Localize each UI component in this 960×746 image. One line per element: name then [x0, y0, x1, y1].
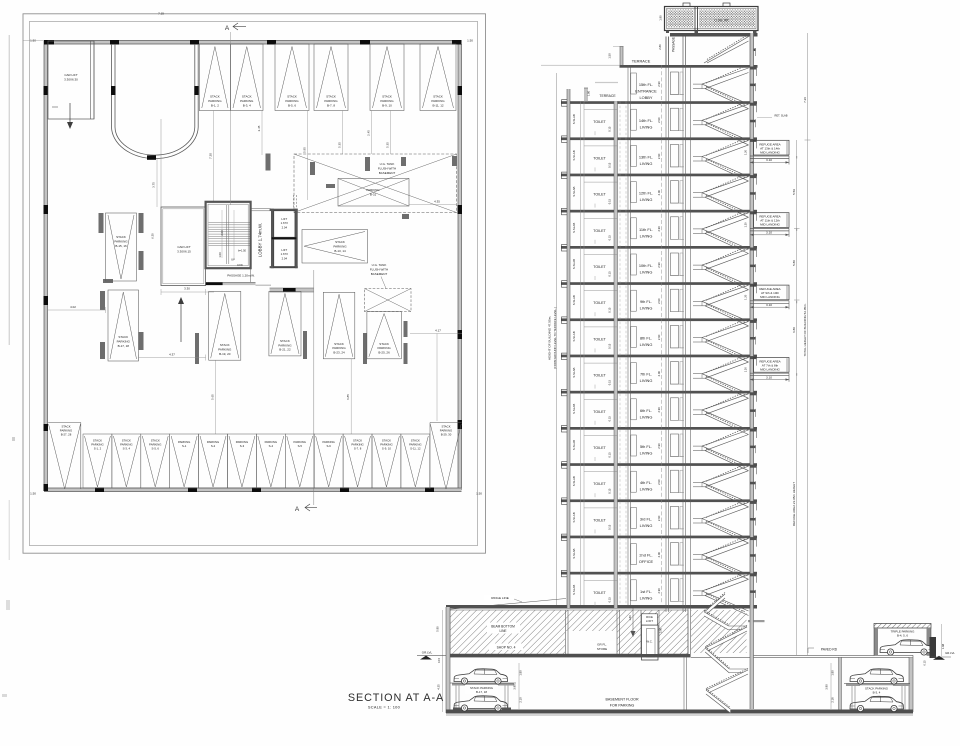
svg-text:10th FL.: 10th FL.	[639, 263, 653, 268]
svg-text:7.15: 7.15	[158, 12, 164, 16]
svg-text:1.20: 1.20	[743, 149, 747, 155]
refuge dim 3.10 2	[750, 156, 797, 164]
svg-text:2.90: 2.90	[657, 189, 661, 195]
svg-text:5.65: 5.65	[211, 394, 215, 400]
svg-text:STACK: STACK	[220, 343, 230, 347]
svg-text:1.20: 1.20	[743, 222, 747, 228]
refuge box 6	[754, 285, 790, 300]
svg-text:S.SLAB: S.SLAB	[572, 585, 576, 595]
svg-text:B-7, 8: B-7, 8	[327, 103, 335, 107]
svg-text:S-1, 2: S-1, 2	[94, 447, 102, 451]
label 14th FL.	[639, 118, 653, 130]
stair landing 10	[693, 446, 705, 451]
svg-text:S.SLAB: S.SLAB	[572, 440, 576, 450]
s.slab 11	[572, 476, 576, 486]
svg-text:6.80: 6.80	[792, 327, 796, 333]
lift walls	[270, 209, 298, 269]
svg-text:TERRACE: TERRACE	[632, 59, 651, 64]
passage walls top	[666, 37, 686, 66]
plan top wall	[44, 41, 462, 45]
stair flight up 6	[702, 284, 749, 306]
svg-text:2.04: 2.04	[282, 225, 288, 229]
lift shaft walls	[666, 37, 686, 613]
wall pier 17	[363, 333, 367, 364]
svg-text:REFUGE AREA 23.95m HEIGHT: REFUGE AREA 23.95m HEIGHT	[792, 482, 796, 526]
stall B-7, 8	[314, 44, 348, 111]
plan bottom wall	[44, 488, 462, 492]
lift door 4	[670, 217, 684, 240]
stair landing 8	[693, 374, 705, 379]
svg-text:PARKING: PARKING	[285, 99, 299, 103]
svg-text:A: A	[295, 506, 300, 513]
svg-text:B-17, 18: B-17, 18	[118, 344, 130, 348]
s.slab 13	[572, 548, 576, 558]
stair flight down 7	[702, 338, 749, 363]
dim 4.37	[139, 353, 206, 361]
svg-text:1.80: 1.80	[659, 15, 663, 21]
label 3rd FL.	[640, 516, 653, 528]
dim 1.80 parapet	[587, 90, 591, 96]
refuge ledge 2	[750, 156, 789, 165]
door living 1	[631, 109, 637, 130]
dim 3.30	[161, 287, 214, 296]
svg-text:STACK: STACK	[379, 342, 389, 346]
dim 4.17	[410, 329, 462, 422]
svg-text:2.90: 2.90	[657, 407, 661, 413]
svg-text:3.10: 3.10	[766, 375, 772, 379]
triple roof	[874, 624, 931, 629]
svg-text:SECTION AT A-A: SECTION AT A-A	[348, 692, 444, 704]
lift door 1	[670, 108, 684, 131]
lobby top wall	[251, 209, 271, 211]
stair landing 5	[693, 265, 705, 270]
s.slab 1	[572, 114, 576, 124]
basement flight d3	[705, 626, 747, 653]
lift door 7	[670, 325, 684, 348]
mid stub 5	[750, 264, 756, 272]
mid stub 14	[750, 590, 756, 598]
svg-text:LOBBY 1.74m.W.: LOBBY 1.74m.W.	[258, 223, 263, 257]
svg-text:LOFT: LOFT	[646, 619, 653, 623]
car lift room	[48, 41, 94, 119]
stair landing 13	[693, 555, 705, 560]
svg-text:STACK: STACK	[280, 339, 290, 343]
toilet 12	[584, 508, 618, 534]
lift 2	[274, 239, 295, 267]
refuge dim 3.10 6	[750, 301, 797, 309]
door living 8	[631, 363, 637, 384]
svg-text:FLUSH WITH: FLUSH WITH	[370, 268, 388, 272]
svg-text:S.SLAB: S.SLAB	[572, 186, 576, 196]
dim height 14	[657, 588, 661, 594]
svg-text:S-5, 6: S-5, 6	[152, 447, 160, 451]
svg-text:4.37: 4.37	[169, 353, 175, 357]
road end post	[930, 637, 937, 658]
svg-text:3.10: 3.10	[766, 303, 772, 307]
basement flight d5	[706, 669, 748, 695]
label 9th FL.	[640, 299, 653, 311]
stair flight up 14	[702, 574, 749, 596]
svg-text:B-23, 24: B-23, 24	[333, 351, 345, 355]
lift door 13	[670, 543, 684, 566]
dim 1.80 tank	[659, 15, 663, 21]
left wing parapet	[584, 88, 588, 101]
label 2nd FL.	[639, 553, 654, 565]
wall pier 11	[139, 251, 144, 270]
wall pier 14	[100, 342, 105, 359]
wall pier 16	[303, 331, 307, 359]
dim 2.45 a	[257, 111, 262, 156]
top flight	[704, 36, 749, 63]
svg-text:1.80: 1.80	[519, 670, 523, 676]
svg-text:2.45: 2.45	[257, 125, 261, 131]
svg-text:LIVING: LIVING	[640, 270, 653, 275]
svg-text:5.35: 5.35	[338, 142, 342, 148]
svg-text:LIVING: LIVING	[640, 451, 653, 456]
stair flight up 9	[702, 393, 749, 415]
svg-text:S.SLAB: S.SLAB	[572, 223, 576, 233]
stall S-1	[170, 434, 199, 488]
wall pier 10	[103, 279, 113, 283]
lift door 8	[670, 362, 684, 385]
ramp ticks	[111, 86, 199, 160]
wall pier 7	[452, 156, 457, 166]
stall B-11, 12	[420, 44, 456, 111]
svg-text:LINE: LINE	[499, 629, 506, 633]
svg-text:LIVING: LIVING	[640, 197, 653, 202]
stair box	[206, 202, 251, 268]
left wall	[567, 89, 570, 608]
s.slab 14	[572, 585, 576, 595]
dim 2.45 b	[367, 111, 372, 155]
refuge height line	[792, 140, 800, 655]
svg-text:BEAM BOTTOM: BEAM BOTTOM	[491, 625, 515, 629]
stair flight down 8	[702, 374, 749, 399]
svg-text:FLUSH WITH: FLUSH WITH	[378, 167, 396, 171]
svg-text:2nd FL.: 2nd FL.	[639, 553, 652, 558]
svg-text:2.90: 2.90	[657, 479, 661, 485]
ramp width dim	[152, 159, 158, 207]
slab stub 4	[750, 211, 757, 221]
toilet 9	[584, 399, 618, 425]
svg-text:ENTRANCE: ENTRANCE	[635, 89, 657, 94]
wall column ticks right	[458, 86, 463, 429]
svg-text:TOILET: TOILET	[593, 156, 606, 160]
svg-text:PARKING: PARKING	[366, 188, 380, 192]
svg-text:BASEMENT: BASEMENT	[371, 272, 388, 276]
s.slab 2	[572, 150, 576, 160]
svg-text:3.90: 3.90	[825, 684, 829, 690]
door living 11	[631, 471, 637, 492]
stair flight up 1	[702, 103, 749, 125]
ground slab	[446, 605, 757, 609]
lift door 10	[670, 434, 684, 457]
stall S-9, 10	[372, 434, 401, 488]
stair landing 12	[693, 519, 705, 524]
svg-text:PARKING: PARKING	[208, 99, 222, 103]
refuge dim 1.20 2	[743, 149, 747, 155]
svg-text:STACK: STACK	[433, 95, 443, 99]
toilet right wall	[614, 101, 618, 608]
toilet 6	[584, 291, 618, 317]
svg-text:2.90: 2.90	[657, 153, 661, 159]
stall B-23, 24	[323, 292, 355, 359]
svg-text:PARKING: PARKING	[278, 343, 292, 347]
svg-text:MID LANDING: MID LANDING	[760, 368, 780, 372]
triple columns	[874, 628, 931, 656]
door living 10	[631, 435, 637, 456]
stair left wall	[690, 65, 692, 608]
ret slab note	[757, 114, 788, 118]
s.slab 6	[572, 295, 576, 305]
stair texts	[218, 230, 247, 267]
mid stub 10	[750, 445, 756, 453]
svg-text:S-3, 4: S-3, 4	[123, 447, 131, 451]
total height dim	[803, 33, 811, 655]
wall pier 12	[100, 291, 105, 310]
dim 1.50 top left	[23, 39, 44, 43]
door living 5	[631, 254, 637, 275]
svg-text:S-4: S-4	[269, 444, 274, 448]
stall S-3	[228, 434, 257, 488]
slab stub 8	[750, 356, 757, 366]
svg-text:PARKING: PARKING	[218, 348, 232, 352]
basement label	[605, 698, 638, 708]
slab 6	[561, 281, 757, 288]
basement floor	[446, 710, 913, 716]
dim height 2	[657, 153, 661, 159]
svg-text:B-27, 28: B-27, 28	[61, 433, 72, 437]
s.slab 5	[572, 259, 576, 269]
wall column ticks bottom	[95, 488, 434, 493]
tank slab	[670, 33, 758, 37]
door living 7	[631, 326, 637, 347]
svg-text:CAR LIFT: CAR LIFT	[64, 73, 78, 77]
lift door 0	[670, 72, 684, 95]
svg-text:UP: UP	[231, 258, 235, 262]
svg-text:STACK: STACK	[116, 235, 126, 239]
svg-text:SHOP NO. 4: SHOP NO. 4	[497, 646, 516, 650]
right bay frame	[852, 686, 905, 710]
passage lower wall	[206, 282, 256, 285]
svg-text:2.90: 2.90	[657, 117, 661, 123]
svg-text:7th FL.: 7th FL.	[640, 372, 652, 377]
door living 9	[631, 399, 637, 420]
dim height 10	[657, 443, 661, 449]
toilet 5	[584, 255, 618, 281]
shaft lines	[620, 101, 626, 605]
svg-text:(FROM GROUND LEVEL TO TERRACE: (FROM GROUND LEVEL TO TERRACE LEVEL.)	[553, 307, 557, 369]
svg-text:HEIGHT OF BUILDING 47.55m.: HEIGHT OF BUILDING 47.55m.	[548, 316, 552, 360]
toilet 10	[584, 436, 618, 462]
dim 5.95	[303, 111, 308, 201]
svg-text:2.90: 2.90	[657, 262, 661, 268]
terrace parapet 15th	[613, 46, 624, 65]
slab 13	[561, 534, 757, 541]
svg-text:B-29, 30: B-29, 30	[441, 433, 452, 437]
dim 4.35 tank	[409, 200, 456, 205]
slab 12	[561, 498, 757, 505]
mid stub 3	[750, 192, 756, 200]
slab 11	[561, 462, 757, 469]
svg-text:5th FL.: 5th FL.	[640, 444, 652, 449]
stair flight down 6	[702, 301, 749, 326]
mid stub 1	[750, 119, 756, 127]
svg-text:S.SLAB: S.SLAB	[572, 548, 576, 558]
svg-text:TOILET: TOILET	[593, 265, 606, 269]
svg-text:S-3: S-3	[240, 444, 245, 448]
stair flight down 9	[702, 410, 749, 435]
door living 3	[631, 182, 637, 203]
svg-text:LIVING: LIVING	[640, 595, 653, 600]
dim 5.35 b	[386, 111, 391, 155]
svg-text:S-11, 12: S-11, 12	[410, 447, 421, 451]
svg-text:PARKING: PARKING	[114, 239, 128, 243]
svg-text:2.90: 2.90	[657, 226, 661, 232]
lift 1	[274, 211, 295, 237]
svg-text:MID LANDING: MID LANDING	[760, 150, 780, 154]
tank body	[665, 7, 759, 31]
svg-text:3.30X6.15: 3.30X6.15	[177, 250, 191, 254]
svg-text:S.SLAB: S.SLAB	[572, 259, 576, 269]
svg-text:S-7, 8: S-7, 8	[354, 447, 362, 451]
dim height 13	[657, 551, 661, 557]
svg-text:TOILET: TOILET	[593, 446, 606, 450]
door living 14	[631, 580, 637, 601]
svg-text:2.10: 2.10	[519, 697, 523, 703]
refuge dim 1.20 4	[743, 222, 747, 228]
dim height 8	[657, 370, 661, 376]
basement landing 1	[729, 626, 747, 630]
gf hatch border	[450, 610, 688, 654]
svg-text:3.90: 3.90	[659, 627, 663, 633]
label 7th FL.	[640, 372, 653, 384]
dim height 0	[657, 81, 661, 87]
store label	[590, 641, 615, 652]
dim 7.20	[209, 111, 214, 202]
svg-text:0.15: 0.15	[923, 660, 927, 666]
svg-text:LIVING: LIVING	[640, 487, 653, 492]
svg-text:0.15: 0.15	[608, 126, 612, 132]
svg-text:B-3, 4: B-3, 4	[243, 103, 251, 107]
slab 9	[561, 389, 757, 396]
slab stub 6	[750, 284, 757, 294]
right bay platform	[844, 684, 910, 687]
svg-text:STACK: STACK	[242, 95, 252, 99]
svg-text:B-25, 26: B-25, 26	[378, 351, 390, 355]
svg-text:TERRACE: TERRACE	[599, 94, 616, 98]
lobby label	[258, 223, 263, 257]
svg-text:3.10: 3.10	[766, 231, 772, 235]
dim 4.02	[48, 305, 106, 313]
svg-text:1st FL.: 1st FL.	[640, 589, 652, 594]
s.slab 7	[572, 331, 576, 341]
svg-text:12th FL.: 12th FL.	[639, 191, 653, 196]
wc shaft	[642, 625, 659, 660]
mid stub 7	[750, 337, 756, 345]
stairwell hatch gf	[691, 610, 747, 653]
svg-text:O.VH. WT.: O.VH. WT.	[714, 19, 729, 23]
slab 10	[561, 426, 757, 433]
refuge ledge 4	[750, 228, 789, 237]
s.slab strip lines	[581, 101, 585, 605]
svg-text:STACK: STACK	[382, 95, 392, 99]
svg-text:2.90: 2.90	[657, 551, 661, 557]
label 8th FL.	[640, 335, 653, 347]
stair treads	[209, 223, 250, 246]
triple label	[891, 630, 915, 638]
svg-text:TOTAL HEIGHT OF BUILDING 52.05: TOTAL HEIGHT OF BUILDING 52.05m.	[803, 303, 807, 356]
svg-text:STACK: STACK	[118, 335, 128, 339]
s.slab 8	[572, 367, 576, 377]
wall pier 4	[365, 157, 370, 171]
svg-text:S.SLAB: S.SLAB	[572, 331, 576, 341]
beam bottom line label	[487, 623, 520, 634]
svg-text:3rd FL.: 3rd FL.	[640, 516, 652, 521]
svg-text:7.26: 7.26	[803, 97, 807, 103]
wall pier 19	[404, 343, 408, 364]
stair landing 2	[693, 157, 705, 162]
dim 1.50 parapet	[608, 53, 612, 59]
stair flight up 5	[702, 248, 749, 270]
s.slab 4	[572, 223, 576, 233]
toilet 14	[584, 580, 618, 606]
s.slab 12	[572, 512, 576, 522]
svg-text:2.90: 2.90	[657, 298, 661, 304]
svg-text:0.15: 0.15	[608, 162, 612, 168]
living left wall	[628, 65, 631, 605]
stall S-5	[285, 434, 314, 488]
svg-text:S.SLAB: S.SLAB	[572, 512, 576, 522]
terrace label left	[599, 94, 616, 98]
background edge	[595, 82, 618, 84]
ramp U outer	[112, 44, 199, 159]
living dashed axis	[661, 65, 663, 604]
svg-text:PARKING: PARKING	[240, 99, 254, 103]
refuge ledge 8	[750, 373, 789, 382]
basement flight d4	[705, 647, 729, 674]
svg-text:STACK: STACK	[326, 95, 336, 99]
stall S-6	[314, 434, 343, 488]
lift door 12	[670, 506, 684, 529]
dim 2.80 band	[658, 44, 662, 50]
toilet 3	[584, 182, 618, 208]
svg-text:2.90: 2.90	[657, 588, 661, 594]
stair right wall low	[750, 608, 754, 709]
wall pier 6	[402, 214, 409, 219]
svg-text:0.15: 0.15	[608, 416, 612, 422]
paved road	[691, 648, 914, 658]
lift door 6	[670, 289, 684, 312]
terrace label main	[632, 59, 651, 64]
label 13th FL.	[639, 154, 653, 166]
door living 12	[631, 507, 637, 528]
lift door 5	[670, 253, 684, 276]
refuge box 2	[754, 140, 790, 155]
stair flight down 2	[702, 157, 749, 182]
door living 6	[631, 290, 637, 311]
svg-text:A: A	[225, 25, 230, 32]
svg-text:BASEMENT FLOOR: BASEMENT FLOOR	[605, 698, 638, 702]
stair landing 1	[693, 120, 705, 125]
svg-text:MID LANDING: MID LANDING	[760, 223, 780, 227]
left bay dims	[513, 663, 523, 709]
svg-text:STACK: STACK	[210, 95, 220, 99]
svg-text:0.15: 0.15	[608, 452, 612, 458]
stair flight down 10	[702, 446, 749, 471]
svg-text:PASSAGE: PASSAGE	[672, 37, 676, 52]
svg-text:B-31: B-31	[370, 193, 377, 197]
